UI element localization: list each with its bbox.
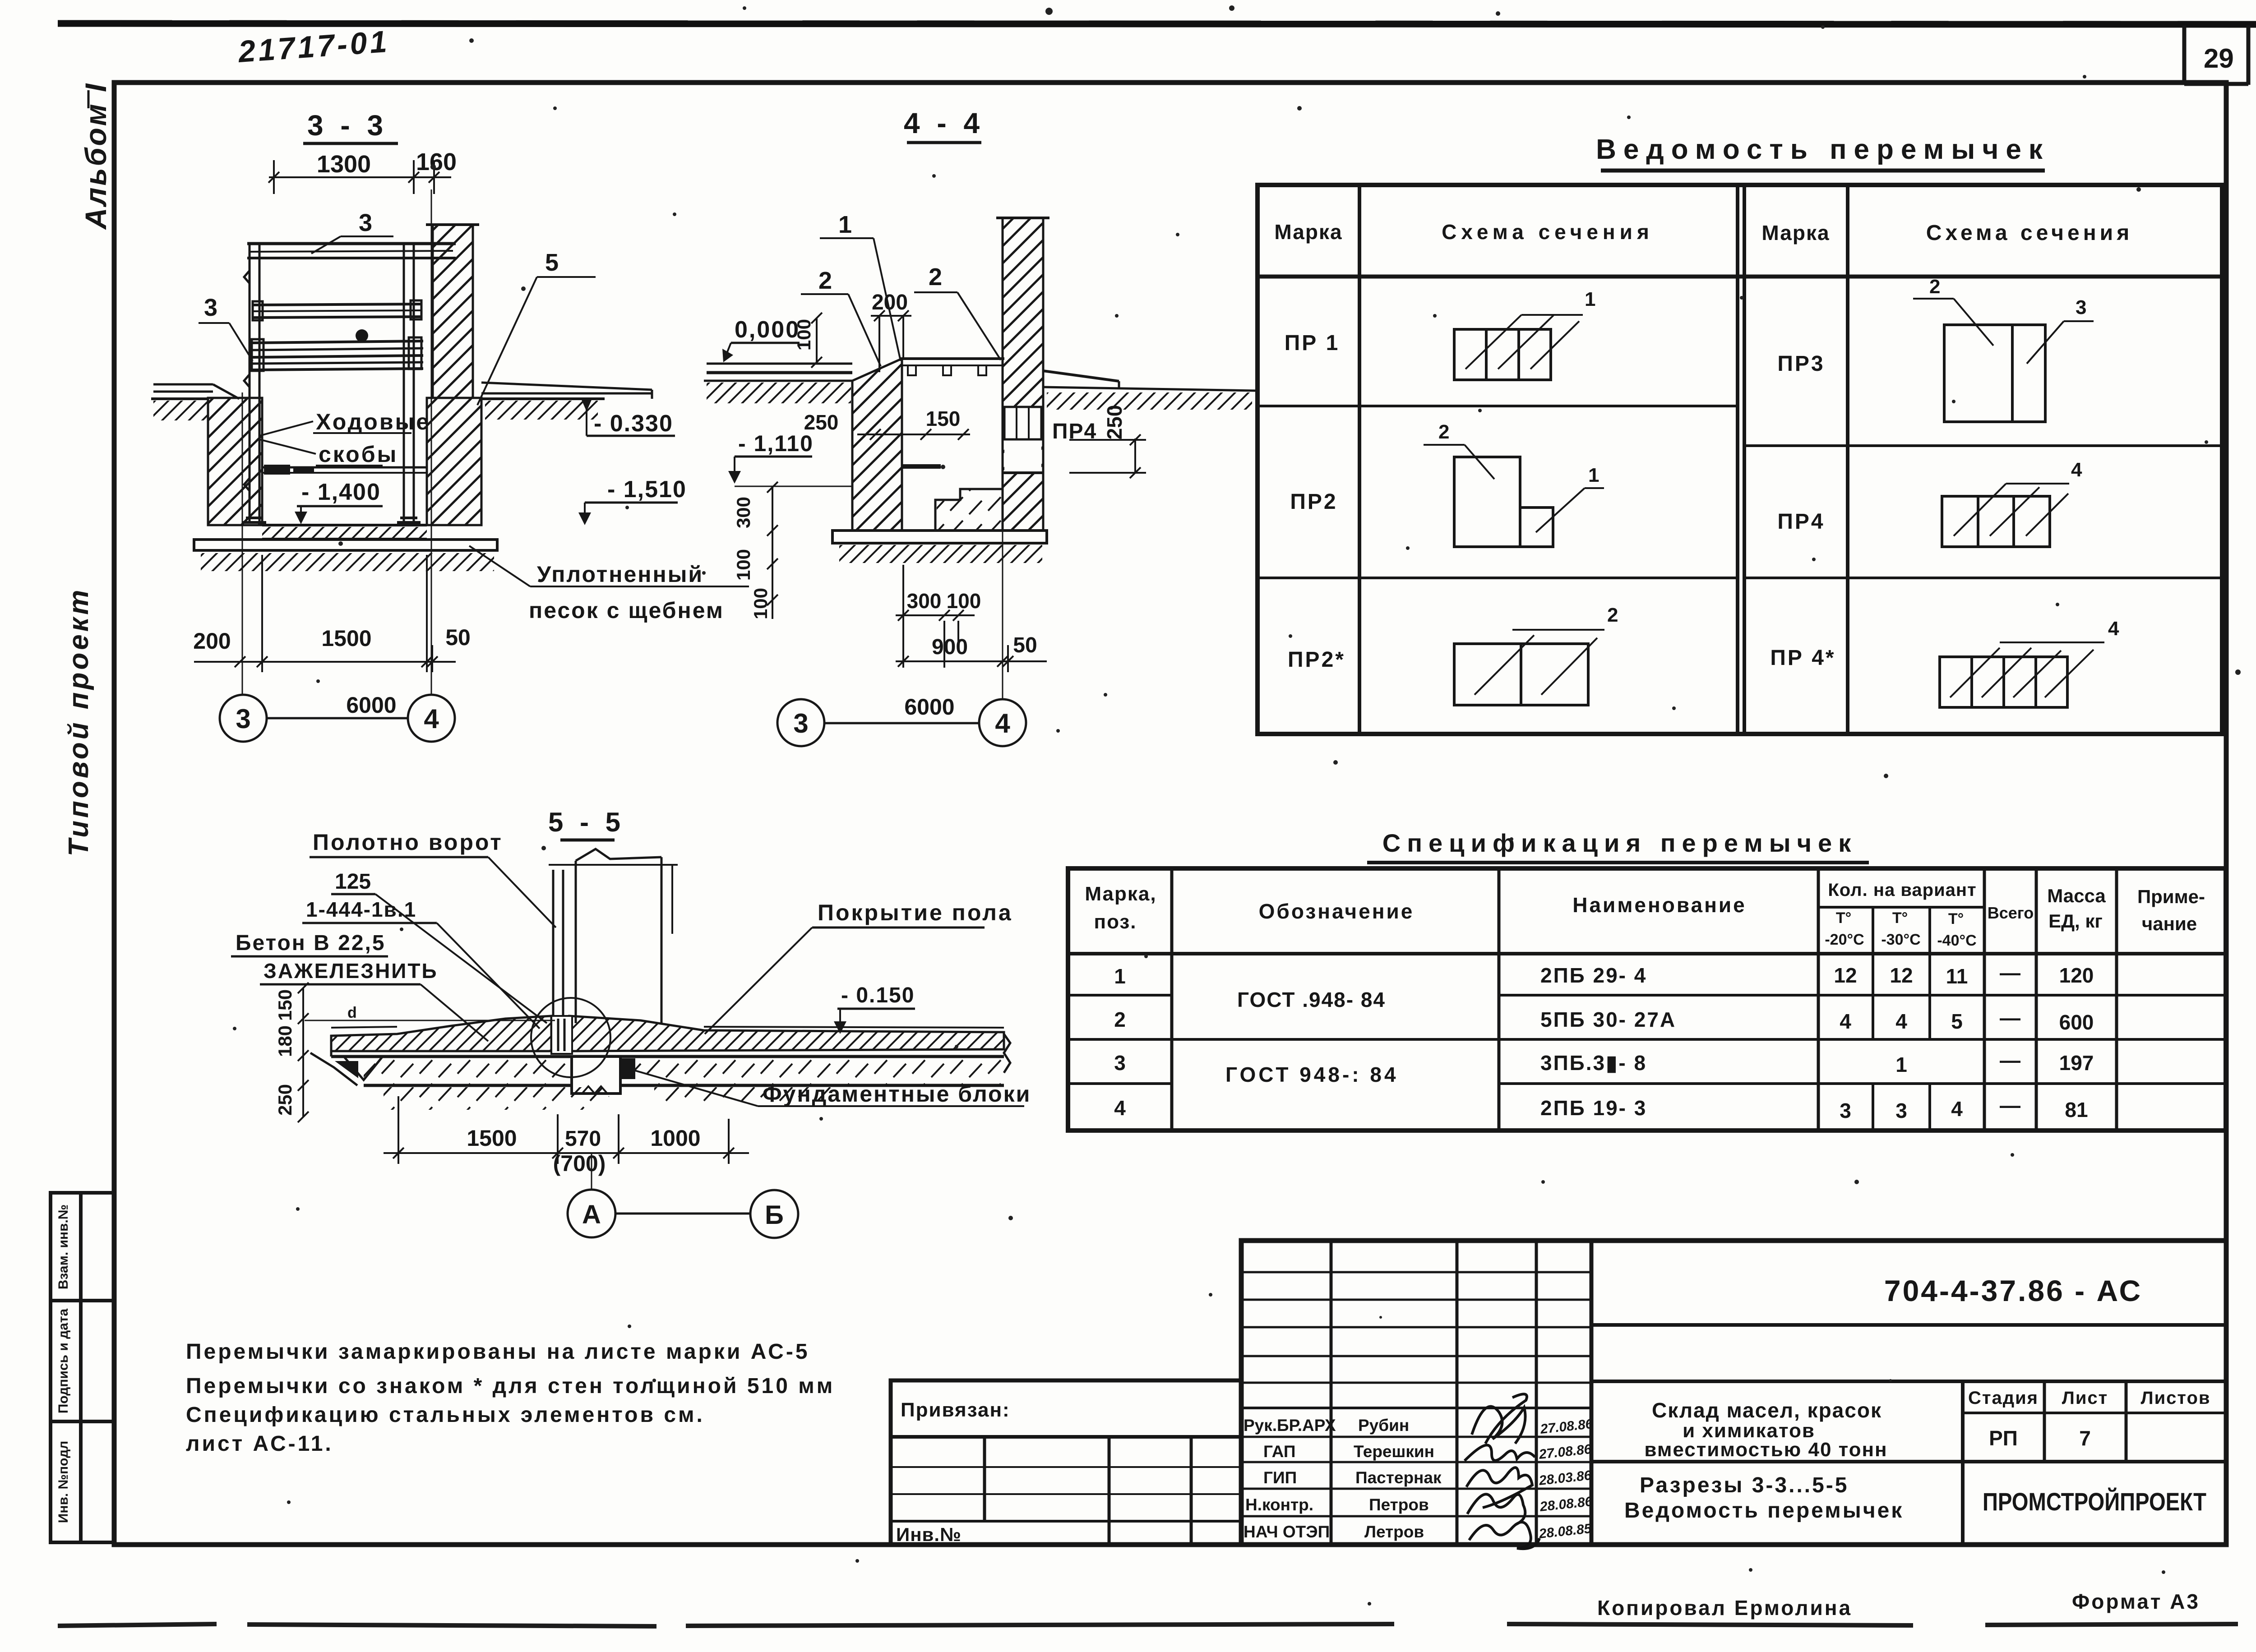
svg-text:4: 4	[2108, 618, 2119, 640]
spec headers	[1085, 880, 2205, 949]
svg-text:ПР2*: ПР2*	[1288, 648, 1345, 672]
svg-text:Бетон В 22,5: Бетон В 22,5	[236, 931, 386, 955]
svg-text:100: 100	[947, 589, 981, 613]
pit left wall (hatched) 3-3	[208, 398, 262, 525]
svg-text:Марка,: Марка,	[1085, 883, 1156, 905]
svg-text:1500: 1500	[467, 1126, 517, 1151]
PR2 section sketch	[1424, 445, 1604, 547]
svg-text:0,000: 0,000	[735, 317, 800, 343]
svg-text:250: 250	[804, 411, 839, 434]
svg-text:250: 250	[1103, 405, 1126, 440]
svg-text:Ведомость перемычек: Ведомость перемычек	[1596, 134, 2050, 165]
svg-text:2: 2	[818, 267, 832, 294]
right break edge (5-5)	[1004, 1034, 1010, 1073]
vertical dim chain (5-5)	[274, 983, 309, 1122]
svg-text:180: 180	[274, 1025, 296, 1057]
svg-text:4: 4	[1114, 1096, 1126, 1120]
grid axis 4 line (4-4)	[1002, 365, 1003, 698]
svg-text:50: 50	[1013, 633, 1037, 657]
svg-text:Т°: Т°	[1892, 909, 1908, 927]
svg-text:—: —	[2000, 1048, 2020, 1072]
bottom dim 900/50 (4-4)	[896, 633, 1047, 672]
wall column (5-5)	[549, 849, 678, 1023]
svg-text:3: 3	[1840, 1099, 1851, 1122]
svg-text:Рубин: Рубин	[1358, 1416, 1409, 1435]
svg-text:4: 4	[1840, 1010, 1851, 1033]
svg-text:Инв.№: Инв.№	[896, 1524, 962, 1545]
grid circle 3 (3-3)	[220, 695, 455, 742]
svg-text:—: —	[2000, 1094, 2020, 1117]
svg-text:5 - 5: 5 - 5	[548, 807, 625, 837]
bottom dims 1500/570/1000/(700) (5-5)	[384, 1096, 749, 1176]
sheet title razrezy	[1624, 1473, 1904, 1523]
leader 2 left (4-4)	[801, 267, 881, 366]
svg-text:3: 3	[204, 294, 217, 321]
left drain notch (5-5)	[310, 1036, 383, 1085]
svg-text:Марка: Марка	[1274, 220, 1342, 244]
svg-text:2ПБ 19- 3: 2ПБ 19- 3	[1540, 1096, 1647, 1120]
svg-text:Склад масел, красок: Склад масел, красок	[1652, 1398, 1882, 1422]
svg-text:ЕД, кг: ЕД, кг	[2048, 910, 2103, 932]
svg-text:1500: 1500	[321, 626, 371, 651]
fundamentnye bloki label	[627, 1068, 1031, 1107]
monolith + pit left wall (4-4)	[852, 359, 902, 531]
svg-text:29: 29	[2204, 43, 2234, 74]
pit floor slab	[262, 525, 427, 539]
svg-text:300: 300	[907, 589, 942, 613]
svg-text:100: 100	[750, 588, 771, 619]
svg-text:НАЧ ОТЭП: НАЧ ОТЭП	[1244, 1523, 1330, 1541]
stamp roles and names	[1244, 1416, 1442, 1541]
svg-text:Приме-: Приме-	[2137, 886, 2205, 907]
level reference line (5-5)	[305, 1020, 555, 1021]
svg-text:3: 3	[236, 704, 250, 734]
svg-text:11: 11	[1946, 964, 1968, 988]
svg-text:—: —	[2000, 1006, 2020, 1029]
beton label	[231, 931, 488, 1041]
svg-text:ПР2: ПР2	[1290, 490, 1337, 514]
rebar hooks under lintel	[908, 365, 986, 375]
svg-text:Привязан:: Привязан:	[901, 1399, 1010, 1421]
grid circle A (5-5)	[568, 1190, 798, 1238]
title block outer	[1241, 1241, 2226, 1545]
grid circle 3 (4-4)	[777, 699, 1026, 746]
left margin stamp boxes	[51, 1193, 114, 1542]
svg-text:2: 2	[929, 263, 942, 291]
dim 100 vertical (4-4)	[793, 313, 822, 368]
svg-text:чание: чание	[2142, 913, 2197, 934]
svg-text:Спецификация перемычек: Спецификация перемычек	[1382, 829, 1857, 857]
svg-text:Листов: Листов	[2141, 1388, 2211, 1408]
bottom dims 200/1500/50	[194, 555, 456, 672]
svg-text:Альбом I: Альбом I	[79, 82, 112, 231]
leader 2 right (4-4)	[914, 263, 1001, 360]
svg-text:Перемычки замаркированы на л: Перемычки замаркированы на листе марки А…	[186, 1340, 810, 1364]
dim 250/150 (4-4)	[804, 407, 970, 440]
svg-text:Летров: Летров	[1364, 1523, 1424, 1541]
svg-text:5ПБ 30- 27А: 5ПБ 30- 27А	[1540, 1008, 1676, 1031]
svg-text:Всего: Всего	[1988, 904, 2034, 922]
svg-text:Масса: Масса	[2047, 885, 2106, 906]
svg-text:d: d	[347, 1004, 357, 1021]
PR2* section sketch	[1454, 630, 1604, 705]
svg-text:Инв. №подл: Инв. №подл	[56, 1441, 71, 1523]
svg-text:900: 900	[932, 635, 968, 659]
svg-text:ГИП: ГИП	[1263, 1468, 1297, 1487]
svg-text:6000: 6000	[904, 694, 954, 720]
svg-text:Марка: Марка	[1761, 221, 1830, 245]
svg-text:ГОСТ .948- 84: ГОСТ .948- 84	[1237, 988, 1386, 1011]
svg-text:Ведомость перемычек: Ведомость перемычек	[1624, 1499, 1904, 1523]
rack feet	[243, 518, 421, 522]
svg-text:Т°: Т°	[1948, 910, 1964, 928]
uplotnenny pesok label	[469, 546, 749, 623]
hodovye skoby ledge	[262, 467, 427, 473]
svg-text:3ПБ.3▮- 8: 3ПБ.3▮- 8	[1540, 1051, 1647, 1075]
left floor slab (4-4)	[704, 364, 852, 381]
svg-text:570: 570	[565, 1127, 601, 1151]
svg-text:- 1,510: - 1,510	[607, 476, 687, 503]
polotno vorot label	[310, 830, 556, 928]
vertical dim chain left (4-4)	[733, 482, 778, 619]
svg-text:300: 300	[733, 497, 754, 528]
stamp dates	[1538, 1417, 1594, 1541]
svg-text:200: 200	[872, 291, 908, 314]
section 5-5 title	[548, 807, 625, 840]
svg-text:Подпись и дата: Подпись и дата	[56, 1308, 71, 1413]
svg-text:Терешкин: Терешкин	[1354, 1442, 1434, 1461]
svg-text:ПР4: ПР4	[1777, 510, 1825, 534]
svg-text:Спецификацию стальных элемен: Спецификацию стальных элементов см.	[186, 1403, 705, 1427]
svg-text:2: 2	[1929, 276, 1940, 298]
svg-text:197: 197	[2059, 1051, 2094, 1075]
svg-text:- 1,400: - 1,400	[301, 479, 381, 505]
svg-text:150: 150	[274, 989, 296, 1021]
notes text block	[186, 1340, 835, 1456]
pokrytie pola label	[705, 900, 1013, 1034]
floor top surface lines (5-5)	[331, 1027, 1004, 1028]
PR3 section sketch	[1913, 299, 2094, 422]
elevation -1,110 (4-4)	[728, 431, 852, 486]
svg-text:1: 1	[1114, 964, 1126, 988]
stamp signature table	[1241, 1241, 1591, 1545]
svg-text:ПР3: ПР3	[1777, 352, 1825, 376]
svg-text:81: 81	[2065, 1098, 2088, 1121]
svg-text:5: 5	[1951, 1010, 1963, 1033]
smudge on beam	[356, 329, 368, 342]
title block right grid	[1591, 1325, 2226, 1545]
elevation -1,510	[578, 476, 687, 525]
svg-text:-20°С: -20°С	[1825, 931, 1864, 948]
svg-text:вместимостью 40 тонн: вместимостью 40 тонн	[1644, 1439, 1887, 1461]
svg-text:песок с щебнем: песок с щебнем	[529, 598, 724, 623]
rack mid beam	[253, 300, 422, 320]
scan top edge line	[58, 23, 2256, 24]
svg-text:120: 120	[2059, 964, 2094, 987]
svg-text:4: 4	[995, 708, 1010, 738]
right wall (4-4)	[996, 218, 1049, 531]
spec table grid	[1068, 868, 2226, 1131]
hodovye skoby label	[259, 409, 430, 467]
svg-text:Ходовые: Ходовые	[316, 409, 430, 434]
svg-text:- 0.330: - 0.330	[594, 411, 673, 437]
svg-text:5: 5	[545, 249, 559, 276]
svg-text:1: 1	[1585, 288, 1595, 310]
section 3-3 title	[303, 109, 398, 143]
page number box 29	[2184, 25, 2248, 85]
svg-text:ГОСТ 948-: 84: ГОСТ 948-: 84	[1225, 1063, 1399, 1086]
svg-text:скобы: скобы	[319, 442, 398, 467]
svg-text:Схема сечения: Схема сечения	[1442, 220, 1654, 244]
svg-text:Копировал Ермолина: Копировал Ермолина	[1597, 1596, 1852, 1620]
wall above ground (hatched) 3-3	[426, 225, 479, 398]
svg-text:- 0.150: - 0.150	[841, 983, 915, 1007]
svg-text:100: 100	[793, 319, 814, 351]
PR4 section sketch	[1942, 484, 2069, 547]
svg-text:Петров: Петров	[1369, 1495, 1429, 1514]
svg-text:3: 3	[2076, 296, 2086, 318]
pit cover lintel (4-4)	[900, 359, 1004, 365]
detail circle (5-5)	[531, 998, 610, 1077]
rack lower shelf bundle	[252, 337, 423, 371]
PR1 section sketch	[1454, 315, 1583, 380]
PR4* section sketch	[1940, 642, 2104, 707]
svg-text:2: 2	[1114, 1008, 1126, 1031]
pit step (4-4)	[935, 489, 1003, 531]
section 4-4 title	[904, 107, 984, 143]
svg-text:Т°: Т°	[1836, 909, 1851, 927]
scan bottom broken line	[58, 1624, 2238, 1626]
leader 3 top (3-3)	[311, 209, 393, 254]
svg-text:- 1,110: - 1,110	[738, 431, 814, 456]
svg-text:6000: 6000	[346, 692, 396, 718]
svg-text:200: 200	[193, 628, 231, 654]
svg-text:2: 2	[1438, 421, 1449, 443]
elevation -0.150 (5-5)	[834, 983, 915, 1034]
svg-text:ПР 1: ПР 1	[1285, 331, 1340, 355]
stamp signatures (scribbles)	[1465, 1394, 1539, 1549]
stadiya list listov	[1968, 1388, 2211, 1450]
svg-text:Перемычки со знаком * для с: Перемычки со знаком * для стен толщиной …	[186, 1374, 835, 1398]
foundation bed slab 3-3	[194, 540, 497, 550]
svg-text:3 - 3: 3 - 3	[307, 109, 388, 142]
svg-text:3: 3	[359, 209, 372, 236]
svg-text:Наименование: Наименование	[1572, 893, 1746, 917]
svg-text:РП: РП	[1989, 1426, 2018, 1450]
grid axis lines 3-3	[242, 189, 431, 694]
svg-text:лист АС-11.: лист АС-11.	[186, 1432, 333, 1456]
svg-text:Уплотненный: Уплотненный	[537, 562, 703, 587]
svg-text:Н.контр.: Н.контр.	[1245, 1495, 1313, 1514]
rack top beam	[247, 244, 456, 258]
svg-text:ЗАЖЕЛЕЗНИТЬ: ЗАЖЕЛЕЗНИТЬ	[264, 959, 438, 983]
svg-text:ПР 4*: ПР 4*	[1770, 646, 1835, 670]
spec data rows	[1114, 961, 2094, 1122]
svg-text:4 - 4: 4 - 4	[904, 107, 984, 139]
project name	[1644, 1398, 1887, 1461]
leader 3 left (3-3)	[199, 294, 253, 361]
svg-text:12: 12	[1890, 964, 1913, 987]
svg-text:А: А	[582, 1200, 601, 1229]
svg-text:3: 3	[793, 708, 808, 738]
svg-text:1000: 1000	[650, 1126, 700, 1151]
leader 1 (4-4)	[820, 211, 901, 361]
svg-text:250: 250	[274, 1084, 296, 1116]
privyazan box	[891, 1380, 1241, 1545]
rack right rail	[404, 244, 414, 523]
svg-text:2: 2	[1607, 604, 1618, 626]
bottom dim 300/100 (4-4)	[896, 565, 981, 668]
svg-text:Кол. на вариант: Кол. на вариант	[1828, 880, 1976, 900]
elevation 0,000 (4-4)	[722, 317, 800, 362]
vedomost peremychek title	[1596, 134, 2050, 171]
svg-text:ПРОМСТРОЙПРОЕКТ: ПРОМСТРОЙПРОЕКТ	[1983, 1487, 2206, 1516]
svg-text:Б: Б	[765, 1200, 784, 1230]
ground line right of wall 3-3	[481, 383, 652, 399]
rack left rail	[244, 244, 259, 523]
svg-text:100: 100	[733, 549, 754, 581]
svg-text:4: 4	[1895, 1010, 1907, 1033]
svg-text:Покрытие пола: Покрытие пола	[818, 900, 1013, 925]
pit right wall (hatched) 3-3	[427, 398, 481, 525]
pit bottom slab (4-4)	[832, 531, 1047, 543]
dim 250 right vertical (4-4)	[1069, 405, 1146, 478]
svg-text:поз.: поз.	[1094, 911, 1137, 933]
foundation block under gate (5-5)	[572, 1057, 635, 1094]
svg-text:600: 600	[2059, 1011, 2094, 1034]
svg-text:50: 50	[445, 625, 471, 650]
svg-text:160: 160	[416, 148, 457, 175]
svg-text:-40°С: -40°С	[1937, 932, 1976, 949]
gate recess slot in floor (5-5)	[551, 1016, 572, 1054]
svg-text:12: 12	[1834, 964, 1857, 987]
svg-text:3: 3	[1895, 1099, 1907, 1122]
leader 5 wall (3-3)	[477, 249, 596, 405]
svg-text:4: 4	[1951, 1097, 1963, 1121]
svg-text:1: 1	[1895, 1053, 1907, 1076]
svg-text:—: —	[2000, 961, 2020, 984]
dark seam in pit (4-4)	[902, 464, 941, 469]
gate leaf (5-5)	[553, 870, 563, 1020]
svg-text:150: 150	[926, 407, 961, 430]
svg-text:704-4-37.86 - АС: 704-4-37.86 - АС	[1884, 1274, 2142, 1307]
dim 1300/160 top of 3-3	[268, 160, 451, 194]
svg-text:1-444-1в.1: 1-444-1в.1	[306, 898, 416, 921]
svg-text:1: 1	[838, 211, 852, 238]
svg-text:1300: 1300	[317, 151, 371, 178]
svg-text:Схема сечения: Схема сечения	[1926, 221, 2133, 245]
svg-text:Рук.БР.АРХ: Рук.БР.АРХ	[1244, 1416, 1336, 1435]
specifikaciya title	[1367, 829, 1869, 863]
svg-text:ГАП: ГАП	[1263, 1442, 1295, 1461]
svg-text:Типовой проект: Типовой проект	[63, 587, 94, 857]
svg-text:4: 4	[424, 704, 439, 734]
svg-text:7: 7	[2079, 1426, 2091, 1450]
svg-text:Разрезы 3-3...5-5: Разрезы 3-3...5-5	[1640, 1473, 1849, 1497]
dim 200 (4-4)	[871, 291, 911, 372]
vedomost table grid	[1257, 185, 2222, 734]
svg-text:Полотно ворот: Полотно ворот	[313, 830, 503, 855]
label 125 / 1-444-1v.1	[302, 870, 547, 1029]
right floor ramp (4-4)	[1043, 371, 1255, 391]
svg-text:3: 3	[1114, 1051, 1126, 1075]
grid axis A line (5-5)	[591, 1153, 592, 1189]
svg-text:Лист: Лист	[2062, 1388, 2108, 1408]
svg-text:Взам. инв.№: Взам. инв.№	[56, 1204, 71, 1290]
svg-text:Стадия: Стадия	[1968, 1388, 2039, 1408]
foundation blocks band (5-5)	[331, 1057, 1004, 1085]
svg-text:4: 4	[2071, 459, 2082, 481]
svg-text:-30°С: -30°С	[1881, 931, 1920, 948]
-1,400 depth mark	[295, 479, 383, 524]
elevation -0.330	[581, 398, 675, 437]
svg-text:Формат А3: Формат А3	[2072, 1590, 2200, 1613]
svg-text:2ПБ 29- 4: 2ПБ 29- 4	[1540, 964, 1647, 987]
ground line left of pit 3-3	[151, 384, 239, 399]
svg-text:Обозначение: Обозначение	[1259, 900, 1415, 923]
ground hatch below blocks (5-5)	[384, 1087, 609, 1110]
svg-text:Пастернак: Пастернак	[1355, 1468, 1442, 1487]
floor screed band (5-5)	[331, 1016, 551, 1051]
svg-text:(700): (700)	[553, 1151, 606, 1176]
svg-text:1: 1	[1588, 464, 1599, 486]
svg-text:125: 125	[335, 870, 371, 894]
